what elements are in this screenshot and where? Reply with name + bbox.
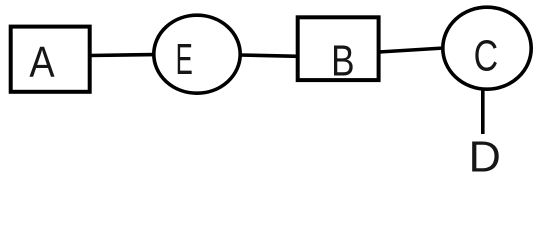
label B <box>331 37 354 85</box>
label E <box>176 35 193 84</box>
wire A-E <box>90 53 154 58</box>
svg-text:B: B <box>331 37 354 85</box>
node E (ellipse) <box>154 15 240 93</box>
node B (rectangle) <box>298 17 379 80</box>
node A (rectangle) <box>11 27 90 92</box>
svg-text:D: D <box>468 133 500 175</box>
svg-text:E: E <box>176 35 193 84</box>
wire E-B <box>239 55 298 56</box>
label A <box>29 38 55 87</box>
wire C-D <box>481 90 485 135</box>
label C <box>474 33 499 81</box>
wire B-C <box>379 48 444 52</box>
label D <box>468 133 500 181</box>
svg-text:C: C <box>474 33 499 81</box>
node C (ellipse) <box>443 7 531 89</box>
svg-text:A: A <box>29 38 55 87</box>
